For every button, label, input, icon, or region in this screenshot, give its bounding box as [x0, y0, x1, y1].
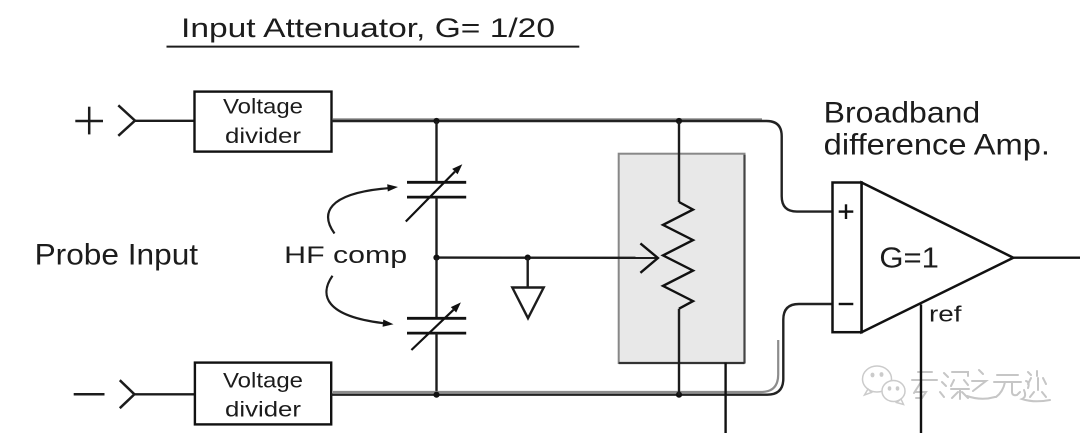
wire top rail from divider to op-amp plus input: [331, 121, 832, 212]
svg-text:G=1: G=1: [879, 242, 939, 274]
plus input terminal symbol: [75, 107, 103, 135]
svg-text:divider: divider: [225, 398, 301, 422]
wire ground stub: [527, 258, 529, 288]
wire minus input to bottom voltage divider: [134, 393, 195, 395]
top voltage divider box: [195, 92, 332, 152]
potentiometer resistor zigzag: [663, 202, 693, 309]
watermark text yun shen zhi wu ji: [912, 370, 1050, 401]
svg-text:Probe Input: Probe Input: [35, 239, 199, 272]
node top cap junction: [433, 118, 439, 124]
minus input terminal symbol: [74, 393, 105, 396]
wire mid node to capacitor C2: [435, 258, 437, 319]
wire ref to bottom edge: [920, 305, 922, 433]
wire top rail to capacitor C1: [435, 121, 437, 183]
wire top rail ghost highlight: [333, 118, 762, 121]
potentiometer shaded box: [619, 154, 745, 363]
svg-text:HF comp: HF comp: [284, 242, 407, 269]
capacitor C1 variable arrow: [406, 164, 463, 221]
watermark wechat logo: [863, 366, 906, 405]
wire C2 to bottom rail: [435, 333, 437, 395]
bottom voltage divider box: [195, 363, 331, 425]
node mid cap junction: [433, 255, 439, 261]
svg-text:divider: divider: [225, 124, 301, 148]
node mid ground junction: [525, 255, 531, 261]
wire bottom rail ghost highlight: [333, 340, 778, 392]
title underline: [167, 46, 580, 48]
ground symbol: [512, 288, 543, 319]
svg-text:Voltage: Voltage: [223, 95, 303, 119]
wire bottom rail from divider to op-amp minus input: [331, 304, 832, 395]
svg-text:Voltage: Voltage: [223, 369, 303, 393]
svg-text:Input Attenuator, G= 1/20: Input Attenuator, G= 1/20: [181, 13, 555, 43]
node bottom cap junction: [433, 392, 439, 398]
svg-text:Broadband: Broadband: [824, 97, 981, 130]
capacitor C2 (variable, bottom): [407, 318, 466, 333]
minus input chevron arrowhead: [120, 380, 135, 408]
node bottom pot junction: [676, 392, 682, 398]
op-amp triangle U1: [862, 183, 1014, 333]
op-amp minus pin mark: [839, 303, 854, 305]
wire C1 to mid node: [435, 197, 437, 258]
wire top rail into potentiometer: [678, 121, 680, 202]
capacitor C2 variable arrow: [411, 302, 461, 350]
svg-text:difference Amp.: difference Amp.: [824, 129, 1050, 162]
label Broadband difference Amp.: [824, 97, 1050, 162]
wire mid node to potentiometer wiper arrow: [437, 256, 657, 259]
wire wiper drop to bottom edge: [724, 363, 726, 433]
wire op-amp output: [1013, 257, 1080, 259]
op-amp plus pin mark: [839, 204, 854, 219]
wire potentiometer to bottom rail: [678, 309, 680, 395]
capacitor C1 (variable, top): [407, 182, 466, 197]
HF comp lower curved arrow: [326, 276, 393, 327]
op-amp input strip rectangle: [833, 183, 862, 333]
wire plus input to top voltage divider: [135, 120, 195, 122]
svg-text:ref: ref: [929, 302, 963, 327]
HF comp upper curved arrow: [328, 184, 398, 233]
potentiometer wiper arrowhead: [640, 243, 658, 272]
node top pot junction: [676, 118, 682, 124]
plus input chevron arrowhead: [118, 105, 135, 136]
